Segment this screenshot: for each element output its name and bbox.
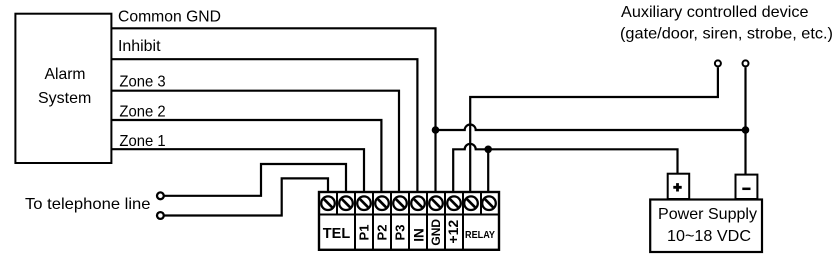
svg-text:P3: P3 <box>393 225 408 241</box>
svg-text:Alarm: Alarm <box>45 66 86 83</box>
screw terminal TEL 2 <box>339 196 353 210</box>
wire telephone line 2 to TEL terminal 1 <box>164 178 328 215</box>
svg-text:Zone 1: Zone 1 <box>119 133 165 150</box>
wire GND bus line A <box>436 125 746 131</box>
minus terminal box <box>736 175 758 199</box>
node telephone terminal 2 <box>157 212 164 219</box>
junction dot line A / aux negative <box>742 126 750 134</box>
wire Zone 2 to P2 terminal <box>111 120 381 192</box>
plus terminal box <box>668 174 690 199</box>
svg-text:P2: P2 <box>375 225 390 241</box>
screw terminal P3 <box>393 196 407 210</box>
wire Common GND to GND terminal <box>111 28 435 192</box>
svg-text:Power Supply: Power Supply <box>658 206 757 223</box>
svg-text:+12: +12 <box>445 220 461 244</box>
screw terminal +12 <box>447 196 461 210</box>
svg-text:TEL: TEL <box>323 226 351 242</box>
svg-text:To telephone line: To telephone line <box>25 196 151 213</box>
screw terminal RELAY 2 <box>482 196 496 210</box>
label minus <box>742 188 750 191</box>
screw terminal IN <box>411 196 425 210</box>
svg-text:IN: IN <box>412 228 427 242</box>
terminal block screw/label divider <box>319 214 499 216</box>
label plus <box>673 183 681 191</box>
wire RELAY 1 to aux device left terminal <box>470 67 718 192</box>
wire aux device right terminal to minus terminal <box>744 67 746 175</box>
label cell dividers <box>355 215 463 250</box>
svg-text:Zone 2: Zone 2 <box>119 104 165 121</box>
svg-text:(gate/door, siren, strobe, etc: (gate/door, siren, strobe, etc.) <box>620 26 833 43</box>
junction dot GND / line A <box>432 126 440 134</box>
wire Inhibit to IN terminal <box>111 59 417 192</box>
wire RELAY 2 to +12 bus <box>487 149 489 192</box>
wire Zone 1 to P1 terminal <box>111 149 364 192</box>
node telephone terminal 1 <box>157 192 164 199</box>
power supply box <box>650 200 762 253</box>
screw terminal TEL 1 <box>321 196 335 210</box>
aux device terminal left <box>715 60 721 66</box>
screw cell dividers <box>337 192 481 215</box>
terminal block outline <box>319 192 499 250</box>
svg-text:GND: GND <box>429 219 443 246</box>
svg-text:P1: P1 <box>357 225 372 241</box>
svg-text:Zone 3: Zone 3 <box>119 73 165 90</box>
Alarm System box <box>15 14 111 163</box>
svg-text:10~18 VDC: 10~18 VDC <box>667 228 751 245</box>
svg-text:Common GND: Common GND <box>118 9 221 26</box>
junction dot RELAY2 / +12 bus <box>484 146 492 154</box>
svg-text:System: System <box>38 90 91 107</box>
svg-text:Inhibit: Inhibit <box>118 38 161 55</box>
svg-text:Auxiliary controlled device: Auxiliary controlled device <box>621 4 809 21</box>
screw terminal GND <box>429 196 443 210</box>
screw terminal P2 <box>375 196 389 210</box>
screw terminal RELAY 1 <box>464 196 478 210</box>
aux device terminal right <box>743 60 749 66</box>
screw terminal P1 <box>357 196 371 210</box>
wire +12 bus to plus terminal <box>453 144 677 192</box>
svg-text:RELAY: RELAY <box>465 229 495 241</box>
wire telephone line 1 to TEL terminal 2 <box>164 164 346 196</box>
wire Zone 3 to P3 terminal <box>111 91 399 192</box>
